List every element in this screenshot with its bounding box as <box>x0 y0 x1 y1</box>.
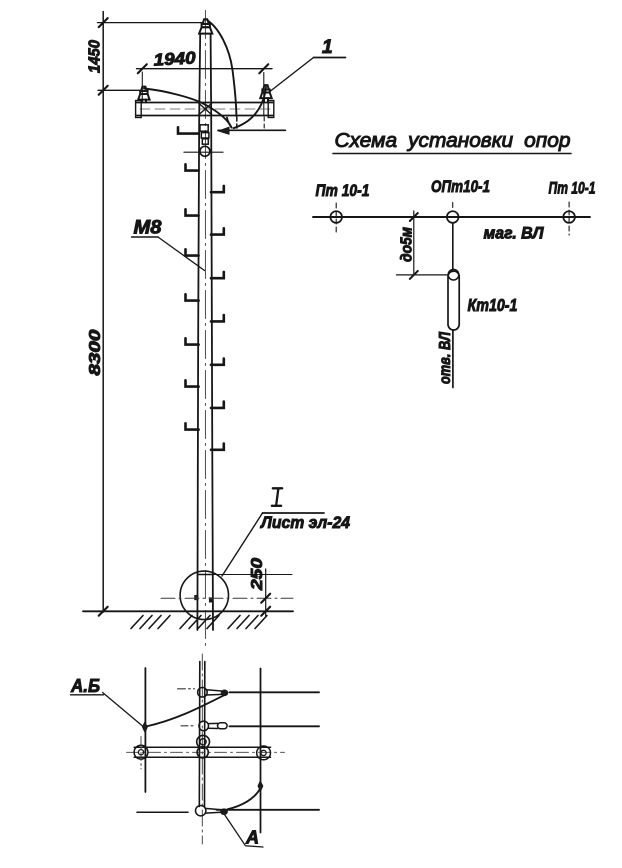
branch line <box>452 224 454 272</box>
detail label line <box>263 512 325 514</box>
svg-text:Пт 10-1: Пт 10-1 <box>316 181 370 200</box>
crossarm bottom <box>136 115 274 117</box>
Kt pole circle <box>448 269 459 280</box>
M8 leader <box>158 237 205 271</box>
svg-text:1450: 1450 <box>87 40 104 73</box>
extension dashed below crossarm right <box>263 117 265 130</box>
M8 underline <box>132 236 159 238</box>
pole center line <box>204 11 206 649</box>
clamp lower <box>202 139 208 144</box>
plan pole right edge <box>204 662 206 807</box>
jumper wire A.B <box>146 694 227 727</box>
branch wire line <box>218 129 286 131</box>
wire end curl <box>227 118 232 128</box>
tick 1940 right <box>259 64 268 73</box>
wire from top insulator <box>208 21 237 117</box>
plan pole left edge <box>198 662 201 807</box>
wire H1 stub <box>178 688 195 690</box>
extension line crossarm level <box>98 89 141 91</box>
dimension 1940 line <box>137 68 273 70</box>
plan crossarm bottom <box>134 756 270 758</box>
extension right insulator <box>263 73 265 117</box>
crossarm right eye <box>257 746 271 760</box>
left insulator <box>138 87 149 103</box>
Kt pole symbol <box>448 271 459 330</box>
leader A.B <box>103 693 144 728</box>
clamp 2 <box>199 721 209 731</box>
wire from right insulator <box>234 87 267 128</box>
svg-text:Лист эл-24: Лист эл-24 <box>259 513 350 532</box>
step hooks left <box>178 127 199 429</box>
vise clamp A <box>258 781 263 792</box>
clamp 1 <box>198 688 208 698</box>
wire H2 <box>230 725 320 727</box>
left eye axis <box>140 737 142 770</box>
crossarm right cap <box>268 101 274 118</box>
label A.B underline <box>71 694 104 696</box>
crossarm top <box>136 102 274 104</box>
right insulator <box>260 85 271 102</box>
pole circle middle <box>447 211 459 223</box>
extension line top <box>98 22 204 24</box>
wire H1 <box>230 691 320 693</box>
tick do5m bottom <box>410 271 418 279</box>
svg-text:Схема установки опор: Схема установки опор <box>335 130 571 152</box>
tick do5m top <box>410 213 418 221</box>
svg-text:250: 250 <box>249 558 266 591</box>
pole left edge <box>197 34 200 630</box>
pole circle left <box>330 211 342 223</box>
clamp body <box>201 133 209 138</box>
roman numeral I <box>272 488 282 506</box>
plan right wire <box>260 669 262 833</box>
crossarm left eye <box>134 745 148 759</box>
svg-text:1: 1 <box>322 37 333 58</box>
wire hidden below crossarm <box>236 117 238 130</box>
ground line <box>83 610 293 612</box>
dim do5m ext <box>396 274 448 276</box>
svg-text:ОПт10-1: ОПт10-1 <box>431 177 490 196</box>
svg-text:М8: М8 <box>134 218 162 239</box>
pole right edge <box>211 34 213 630</box>
tick 1940 left <box>138 64 147 73</box>
svg-text:Пт 10-1: Пт 10-1 <box>549 179 596 198</box>
tick 250 bottom <box>261 607 270 616</box>
branch line lower <box>452 330 454 388</box>
svg-text:маг. ВЛ: маг. ВЛ <box>484 224 544 243</box>
base bolt right <box>209 598 213 603</box>
crossarm pole brace X <box>199 103 213 115</box>
svg-text:А: А <box>245 828 259 848</box>
wire H3 <box>217 809 320 811</box>
main line mag VL <box>313 216 590 218</box>
plan pole circle lower <box>197 747 208 758</box>
svg-text:А.Б: А.Б <box>70 676 100 696</box>
plan crossarm center line <box>127 751 285 753</box>
base bolt left <box>195 595 199 600</box>
wire H2 stub <box>181 725 195 727</box>
plan pole center line <box>201 654 203 844</box>
band circle <box>200 146 210 156</box>
bottom clamp <box>196 806 206 816</box>
scheme title underline <box>333 153 571 155</box>
crossarm center line <box>140 108 270 110</box>
ground hatching <box>131 616 267 629</box>
tick 250 top <box>261 594 270 603</box>
base axis dashdot <box>161 597 293 599</box>
vise clamp A.B <box>142 722 147 733</box>
svg-text:1940: 1940 <box>153 48 197 69</box>
wire from left insulator <box>144 89 232 128</box>
base collar <box>198 574 214 576</box>
detail leader <box>222 513 263 576</box>
crossarm left cap <box>136 101 142 118</box>
leader label 1 <box>314 57 346 59</box>
dim do5m line <box>413 211 415 275</box>
step hooks right <box>211 186 224 450</box>
arrow on branch wire <box>219 127 230 134</box>
band line <box>184 151 223 153</box>
tick top <box>99 18 108 27</box>
top insulator <box>199 19 212 33</box>
dim 250 line <box>265 569 267 616</box>
pole circle right <box>563 211 575 223</box>
svg-text:Кт10-1: Кт10-1 <box>468 295 518 315</box>
plan left wire <box>144 668 146 792</box>
dimension line vertical (1450+8300) <box>102 12 104 613</box>
tick ground <box>99 607 108 616</box>
plan pole circle upper <box>197 735 210 748</box>
tick crossarm <box>99 86 108 95</box>
detail circle <box>180 571 228 619</box>
plan crossarm top <box>134 746 270 748</box>
dim 250 ext <box>211 574 292 576</box>
svg-text:отв. ВЛ: отв. ВЛ <box>437 332 454 384</box>
svg-text:до5м: до5м <box>399 227 416 262</box>
jumper wire A <box>228 790 260 810</box>
leader A <box>225 815 264 848</box>
svg-text:8300: 8300 <box>87 329 104 375</box>
bolt plate below crossarm <box>200 125 208 131</box>
extension left insulator <box>141 72 143 101</box>
wire H3 stub <box>137 811 188 813</box>
